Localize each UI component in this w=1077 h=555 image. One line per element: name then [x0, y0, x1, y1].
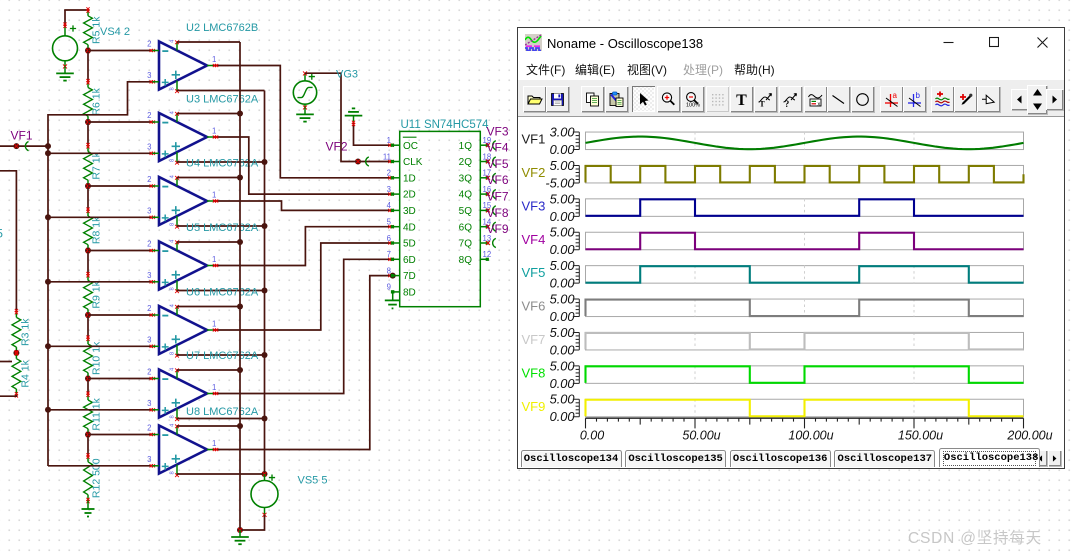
oscilloscope window: [517, 27, 1065, 469]
svg-text:5.00: 5.00: [550, 258, 576, 273]
scope row VF5: [522, 258, 1024, 291]
op-amp U6: [147, 287, 259, 358]
node VF4 probe: [486, 141, 509, 167]
node VF5 probe: [486, 157, 509, 183]
node rail junction: [237, 111, 243, 117]
svg-text:VF6: VF6: [487, 173, 509, 187]
voltage generator VG3: [293, 71, 316, 109]
svg-text:7: 7: [387, 250, 391, 259]
svg-text:5.00: 5.00: [550, 158, 576, 173]
node rail2 junction: [262, 159, 268, 165]
svg-text:0.00: 0.00: [550, 409, 576, 424]
node bus junction U3: [45, 150, 51, 156]
svg-text:0.00: 0.00: [550, 209, 576, 224]
svg-text:1: 1: [387, 136, 391, 145]
svg-text:5: 5: [0, 229, 3, 241]
svg-text:1: 1: [212, 320, 216, 329]
node VF1: [0, 129, 48, 151]
node R3-R4 junction: [13, 350, 19, 356]
ground of VG3: [296, 107, 314, 121]
wire R9 to R10: [87, 315, 89, 338]
wire bus to U6 pin3: [48, 345, 152, 347]
op-amp U8: [147, 406, 259, 477]
node rail junction: [237, 367, 243, 373]
svg-text:4D: 4D: [403, 222, 416, 233]
svg-text:R4 1k: R4 1k: [20, 359, 32, 387]
node VF2 probe: [326, 140, 369, 167]
node VF9 probe: [486, 222, 509, 248]
wire V+ rail: [239, 42, 241, 530]
svg-text:VF5: VF5: [487, 157, 509, 171]
svg-text:1: 1: [212, 439, 216, 448]
svg-text:8: 8: [170, 159, 176, 162]
svg-text:1D: 1D: [403, 173, 416, 184]
svg-text:T: T: [736, 92, 747, 108]
svg-text:4: 4: [170, 110, 176, 114]
node VS5 top junction: [262, 471, 268, 477]
ground of 8D pin: [385, 290, 400, 308]
resistor R5: [84, 7, 103, 53]
svg-text:2: 2: [147, 40, 151, 49]
node rail2 junction: [262, 352, 268, 358]
svg-text:VF5: VF5: [522, 265, 546, 280]
wire U6 output to 5D: [213, 243, 391, 330]
svg-text:1: 1: [212, 383, 216, 392]
svg-text:0.00: 0.00: [550, 276, 576, 291]
wire R7 to R8: [87, 186, 89, 210]
wire U2 output to 1D: [213, 66, 391, 178]
wire U3 Vplus to rail: [177, 113, 240, 115]
svg-text:VF1: VF1: [522, 132, 546, 147]
svg-text:6D: 6D: [403, 255, 416, 266]
svg-text:7Q: 7Q: [459, 239, 473, 250]
svg-text:8: 8: [387, 266, 391, 275]
wire OC ground to OC pin: [354, 123, 392, 146]
wire VS4 to R5: [64, 9, 89, 11]
wire tap5 to U6 pin2: [88, 314, 152, 316]
resistor R3: [12, 309, 32, 356]
node rail junction: [237, 423, 243, 429]
svg-text:8: 8: [170, 415, 176, 418]
wire tap6 to U7 pin2: [88, 378, 152, 380]
svg-text:2: 2: [147, 240, 151, 249]
svg-text:VF7: VF7: [522, 332, 546, 347]
svg-text:VF3: VF3: [487, 124, 509, 138]
node ladder tap 4: [85, 248, 91, 254]
svg-text:U3 LMC6762A: U3 LMC6762A: [186, 94, 259, 106]
svg-text:a: a: [892, 91, 897, 100]
svg-text:VF8: VF8: [487, 206, 509, 220]
svg-text:4: 4: [170, 239, 176, 243]
wire U5 Vplus to rail: [177, 241, 240, 243]
svg-text:50.00u: 50.00u: [682, 429, 720, 443]
wire tap7 to U8 pin2: [88, 434, 152, 436]
svg-text:6Q: 6Q: [459, 222, 473, 233]
svg-text:R3 1k: R3 1k: [20, 318, 32, 346]
ground of R12: [82, 501, 95, 517]
wire U4 Vplus to rail: [177, 177, 240, 179]
svg-text:0.00: 0.00: [550, 142, 576, 157]
svg-text:VF6: VF6: [522, 299, 546, 314]
svg-text:8: 8: [170, 352, 176, 355]
svg-text:6: 6: [387, 234, 391, 243]
svg-text:200.00u: 200.00u: [1006, 429, 1052, 443]
wire tap3 to U4 pin2: [88, 185, 152, 187]
wire R5 to R6: [87, 51, 89, 82]
svg-text:5.00: 5.00: [550, 225, 576, 240]
svg-text:R8 1k: R8 1k: [91, 216, 103, 244]
svg-text:3: 3: [147, 71, 151, 80]
node VF3 probe: [486, 124, 509, 150]
scope row VF8: [522, 358, 1024, 391]
svg-text:T: T: [759, 99, 765, 108]
wire U8 Vminus to rail: [177, 473, 265, 475]
node ladder tap 3: [85, 183, 91, 189]
svg-text:4: 4: [387, 201, 392, 210]
svg-text:-5.00: -5.00: [545, 175, 575, 190]
wire R4 stub left: [0, 361, 12, 363]
svg-text:VF4: VF4: [487, 141, 509, 155]
wire bus to U5 pin3: [48, 281, 152, 283]
scope row VF4: [522, 225, 1024, 258]
svg-text:U2 LMC6762B: U2 LMC6762B: [186, 22, 258, 34]
svg-text:2Q: 2Q: [459, 157, 473, 168]
wire U5 Vminus to rail: [177, 290, 265, 292]
node U8-7D junction: [390, 273, 396, 279]
svg-text:3.00: 3.00: [550, 124, 576, 139]
node bus junction U4: [45, 214, 51, 220]
svg-text:5Q: 5Q: [459, 206, 473, 217]
wire tap4 to U5 pin2: [88, 250, 152, 252]
node rail junction: [237, 175, 243, 181]
wire U8 Vplus to rail: [177, 425, 240, 427]
wire bus to U3 pin3: [48, 152, 152, 154]
wire U8 output to 7D: [213, 276, 393, 450]
resistor R8: [84, 208, 103, 254]
svg-text:0.00: 0.00: [550, 342, 576, 357]
wire U7 Vminus to rail: [177, 418, 265, 420]
svg-text:100.00u: 100.00u: [788, 429, 833, 443]
svg-text:8: 8: [170, 223, 176, 226]
svg-text:VS4 2: VS4 2: [100, 26, 130, 38]
main ground: [231, 530, 249, 544]
svg-text:?: ?: [784, 99, 789, 108]
wire R8 to R9: [87, 251, 89, 275]
svg-text:3: 3: [147, 455, 151, 464]
svg-text:2D: 2D: [403, 190, 416, 201]
svg-text:VF1: VF1: [11, 129, 33, 143]
svg-text:100%: 100%: [686, 102, 700, 108]
svg-text:5.00: 5.00: [550, 392, 576, 407]
svg-text:VF4: VF4: [522, 232, 546, 247]
svg-text:11: 11: [383, 152, 391, 161]
wire VF1 bus vertical: [47, 114, 49, 466]
svg-text:R6 1k: R6 1k: [91, 87, 103, 115]
svg-text:150.00u: 150.00u: [898, 429, 943, 443]
wire U7 Vplus to rail: [177, 369, 240, 371]
wire R11 to R12: [87, 435, 89, 457]
node ladder tap 6: [85, 376, 91, 382]
wire U5 output to 4D: [213, 227, 391, 266]
svg-text:5: 5: [387, 218, 392, 227]
resistor R12: [84, 453, 103, 503]
scope row VF2: [522, 158, 1024, 191]
watermark: [908, 526, 1042, 548]
svg-text:b: b: [915, 91, 920, 100]
svg-text:2: 2: [147, 111, 151, 120]
svg-text:R11 1k: R11 1k: [91, 397, 103, 430]
svg-text:U8 LMC6762A: U8 LMC6762A: [186, 406, 259, 418]
node bus-VF1 junction: [45, 143, 51, 149]
svg-text:4: 4: [170, 39, 176, 43]
wire U7 output to 6D: [213, 259, 391, 393]
wire U4 output to 3D: [213, 201, 391, 210]
svg-text:4: 4: [170, 174, 176, 178]
svg-text:R12 500: R12 500: [91, 458, 103, 498]
svg-text:8: 8: [170, 471, 176, 474]
scope row VF3: [522, 191, 1024, 224]
svg-text:U6 LMC6762A: U6 LMC6762A: [186, 287, 259, 299]
node bus junction U7: [45, 407, 51, 413]
op-amp U3: [147, 94, 259, 165]
op-amp U2: [147, 22, 258, 93]
svg-text:5D: 5D: [403, 239, 416, 250]
wire tap1 to U2 pin2: [88, 50, 152, 52]
svg-text:5.00: 5.00: [550, 358, 576, 373]
node VF8 probe: [486, 206, 509, 232]
svg-text:8: 8: [170, 87, 176, 90]
svg-text:VF2: VF2: [522, 165, 546, 180]
wire VG3 to CLK: [305, 73, 391, 161]
scope row VF9: [522, 392, 1024, 425]
svg-text:1Q: 1Q: [459, 141, 473, 152]
svg-text:VF9: VF9: [522, 399, 546, 414]
svg-text:4: 4: [170, 303, 176, 307]
svg-text:0.00: 0.00: [550, 309, 576, 324]
wire U3 Vminus to rail: [177, 161, 265, 163]
wire U3 output to 2D: [213, 137, 391, 194]
IC U11 SN74HC574: [383, 119, 492, 307]
node VF6 probe: [486, 173, 509, 199]
wire R4 to left edge: [0, 395, 16, 396]
wire bus to U4 pin3: [48, 216, 152, 218]
svg-text:U5 LMC6762A: U5 LMC6762A: [186, 222, 259, 234]
resistor R11: [84, 392, 103, 438]
svg-text:2: 2: [147, 304, 151, 313]
svg-text:VF7: VF7: [487, 190, 509, 204]
svg-text:VG3: VG3: [336, 69, 358, 81]
svg-text:U4 LMC6762A: U4 LMC6762A: [186, 158, 259, 170]
svg-text:VS5 5: VS5 5: [298, 475, 328, 487]
svg-text:x: x: [817, 101, 820, 107]
node rail junction: [237, 304, 243, 310]
svg-text:1: 1: [212, 55, 216, 64]
node ladder tap 5: [85, 312, 91, 318]
svg-text:2: 2: [147, 175, 151, 184]
svg-text:4Q: 4Q: [459, 190, 473, 201]
wire bus to U7 pin3: [48, 409, 152, 411]
wire U6 Vplus to rail: [177, 306, 240, 308]
svg-text:3: 3: [147, 399, 151, 408]
op-amp U7: [147, 350, 259, 421]
resistor R10: [84, 336, 103, 382]
node ladder tap 7: [85, 432, 91, 438]
svg-text:3D: 3D: [403, 206, 416, 217]
svg-text:3: 3: [147, 271, 151, 280]
voltage source VS4: [53, 10, 130, 68]
node ladder tap 2: [85, 119, 91, 125]
svg-text:3: 3: [147, 143, 151, 152]
svg-text:0.00: 0.00: [580, 429, 604, 443]
svg-text:1: 1: [212, 127, 216, 136]
op-amp U4: [147, 158, 259, 229]
svg-text:8D: 8D: [403, 288, 416, 299]
svg-text:3: 3: [387, 185, 391, 194]
node rail2 junction: [262, 288, 268, 294]
node bus junction U5: [45, 279, 51, 285]
wire R10 to R11: [87, 379, 89, 395]
op-amp U5: [147, 222, 259, 293]
svg-text:VF9: VF9: [487, 222, 509, 236]
svg-text:U7 LMC6762A: U7 LMC6762A: [186, 350, 259, 362]
wire tap2 to U3 pin2: [88, 121, 152, 123]
wire U6 Vminus to rail: [177, 354, 265, 356]
wire U4 Vminus to rail: [177, 225, 265, 227]
wire R6 to R7: [87, 122, 89, 146]
scope row VF7: [522, 325, 1024, 358]
ground of OC pin: [345, 108, 363, 122]
resistor R9: [84, 272, 103, 318]
voltage source VS5: [251, 474, 327, 517]
svg-text:R5 1k: R5 1k: [91, 16, 103, 44]
svg-text:4: 4: [170, 423, 176, 427]
wire VS5 to ground: [240, 515, 265, 530]
node bus junction U6: [45, 343, 51, 349]
svg-text:5.00: 5.00: [550, 325, 576, 340]
node rail2 junction: [262, 223, 268, 229]
svg-text:CLK: CLK: [403, 157, 423, 168]
svg-text:2: 2: [147, 368, 151, 377]
svg-text:9: 9: [387, 283, 391, 292]
svg-text:0.00: 0.00: [550, 242, 576, 257]
wire U2 Vplus to rail: [177, 41, 240, 43]
svg-text:5.00: 5.00: [550, 191, 576, 206]
svg-text:VF8: VF8: [522, 365, 546, 380]
scope row VF1: [522, 124, 1024, 157]
node rail2 junction: [262, 416, 268, 422]
svg-text:3: 3: [147, 336, 151, 345]
node ladder tap 1: [85, 48, 91, 54]
svg-text:R9 1k: R9 1k: [91, 280, 103, 308]
svg-text:8Q: 8Q: [459, 255, 473, 266]
svg-text:7D: 7D: [403, 271, 416, 282]
svg-text:4: 4: [170, 367, 176, 371]
svg-text:0.00: 0.00: [550, 376, 576, 391]
svg-text:12: 12: [483, 250, 492, 259]
svg-text:1: 1: [212, 255, 216, 264]
svg-text:OC: OC: [403, 141, 418, 152]
wire bus jog to U2 pin3: [48, 82, 152, 115]
svg-text:2: 2: [387, 169, 391, 178]
resistor R7: [84, 143, 103, 189]
node VF7 probe: [486, 190, 509, 216]
svg-text:3Q: 3Q: [459, 173, 473, 184]
node main ground junction: [237, 527, 243, 533]
resistor R6: [84, 79, 103, 125]
scope row VF6: [522, 291, 1024, 324]
ground of VS4: [56, 66, 74, 80]
wire left input to R3: [0, 171, 16, 312]
scope time axis: [580, 418, 1053, 442]
node rail junction: [237, 239, 243, 245]
svg-text:8: 8: [170, 287, 176, 290]
svg-text:1: 1: [212, 191, 216, 200]
svg-text:VF3: VF3: [522, 198, 546, 213]
svg-text:VF2: VF2: [326, 140, 348, 154]
wire bus to U8 pin3: [48, 465, 152, 467]
svg-text:R7 1k: R7 1k: [91, 151, 103, 179]
wire U2 Vminus to rail: [177, 90, 265, 92]
svg-text:3: 3: [147, 207, 151, 216]
svg-text:2: 2: [147, 424, 151, 433]
wire V- rail: [264, 91, 266, 475]
svg-text:5.00: 5.00: [550, 291, 576, 306]
svg-text:U11 SN74HC574: U11 SN74HC574: [401, 119, 490, 131]
resistor R4: [12, 350, 32, 397]
